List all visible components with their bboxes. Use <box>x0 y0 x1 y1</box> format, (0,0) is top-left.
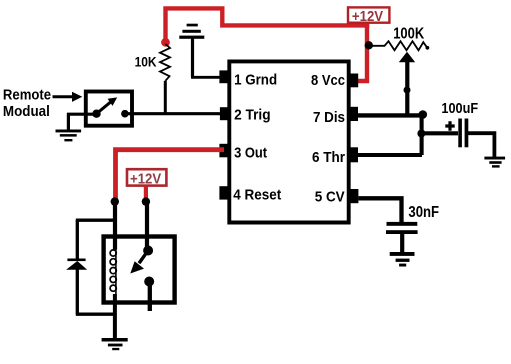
svg-text:4 Reset: 4 Reset <box>233 187 281 204</box>
node dot right relay feed <box>142 197 150 205</box>
capacitor 100uF plates <box>458 119 462 148</box>
node: +12V tap to pot <box>365 41 373 49</box>
arrow remote to switch <box>53 95 73 98</box>
pin 6 square <box>348 147 358 162</box>
ground (inverted) near pin 1 <box>179 24 204 78</box>
svg-text:5 CV: 5 CV <box>315 189 345 206</box>
wire 10K bottom to pin2 net <box>164 81 167 114</box>
relay K box <box>104 237 175 303</box>
relay contact top <box>143 246 153 256</box>
wire +12V box to relay switch <box>144 186 148 200</box>
wire 30nF to ground <box>400 234 404 253</box>
node cap branch junction <box>417 130 425 138</box>
wire pin 2 net <box>125 112 220 115</box>
supply label +12V (lower left) <box>127 169 166 187</box>
svg-text:6 Thr: 6 Thr <box>312 149 345 166</box>
svg-text:10K: 10K <box>135 54 157 69</box>
pot end dot <box>426 46 430 50</box>
switch S (remote module) box <box>86 92 132 126</box>
switch contact right <box>121 110 129 118</box>
wire 100uF to ground <box>468 133 494 157</box>
plus sign of 100uF <box>445 121 454 131</box>
wire +12V top red run <box>166 8 368 81</box>
wire ground to pin 1 <box>191 76 220 79</box>
svg-text:30nF: 30nF <box>408 204 439 221</box>
pin 4 square <box>219 186 230 199</box>
svg-text:2 Trig: 2 Trig <box>234 107 271 124</box>
capacitor 30nF plates <box>387 222 418 226</box>
relay contact bottom <box>144 277 154 287</box>
pin 2 square <box>220 107 230 120</box>
wire pin 6 <box>358 153 422 157</box>
node pin7 junction <box>419 110 428 119</box>
svg-text:Remote: Remote <box>3 88 51 104</box>
ground relay <box>102 338 128 350</box>
wire diode bottom to coil ground net <box>76 313 115 316</box>
wire +12V box stub <box>365 23 369 29</box>
pot wiper arrow <box>405 60 409 117</box>
wire to 100uF <box>421 131 458 135</box>
ground below remote switch <box>56 113 82 141</box>
svg-text:3 Out: 3 Out <box>234 144 267 161</box>
wire to relay coil <box>113 202 117 250</box>
svg-text:+12V: +12V <box>352 8 383 25</box>
wire pin 7 <box>358 113 423 117</box>
svg-text:+12V: +12V <box>130 171 161 188</box>
node dot left relay feed <box>111 197 119 205</box>
pin 7 square <box>348 107 358 121</box>
switch contact left <box>92 110 100 118</box>
wire pin 3 red run <box>116 150 225 200</box>
svg-text:1 Grnd: 1 Grnd <box>234 71 277 88</box>
wire into switch from ground <box>67 113 97 116</box>
ground 100uF <box>484 157 505 168</box>
pin 1 square <box>219 70 229 83</box>
resistor 10K zigzag <box>160 44 170 81</box>
relay switch stub below box <box>148 282 152 312</box>
relay coil <box>110 250 116 295</box>
wire diode top to coil net <box>76 219 115 222</box>
wire pin 5 to 30nF <box>359 198 402 222</box>
supply label +12V (top right) <box>348 7 389 25</box>
IC U1 555 body <box>229 61 348 222</box>
pin 3 square <box>219 144 230 158</box>
pin 5 square <box>349 189 359 203</box>
diode D1 flyback <box>66 220 87 314</box>
pin 8 square <box>349 74 359 88</box>
node: red junction at top of 10K <box>161 38 170 47</box>
ground 30nF <box>390 252 415 267</box>
svg-text:Modual: Modual <box>3 103 50 120</box>
switch lever with arrowhead <box>97 102 112 114</box>
svg-text:8 Vcc: 8 Vcc <box>311 72 345 89</box>
relay lever arrow <box>139 251 148 264</box>
svg-text:100K: 100K <box>393 26 425 43</box>
wire to relay switch contact <box>145 202 149 251</box>
potentiometer 100K zigzag <box>371 41 427 50</box>
wire coil bottom to ground <box>113 294 117 340</box>
svg-text:100uF: 100uF <box>441 100 478 117</box>
svg-text:7 Dis: 7 Dis <box>313 109 345 126</box>
wire pin7-pin6 vertical <box>420 113 424 155</box>
node on wiper line <box>404 87 411 94</box>
